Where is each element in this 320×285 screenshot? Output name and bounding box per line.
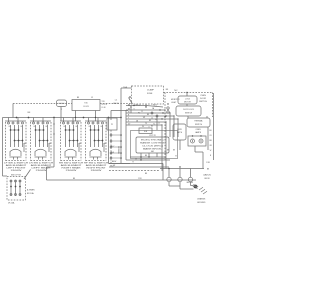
svg-text:A TIMER: A TIMER xyxy=(27,189,35,192)
svg-text:P3 P2 P1: P3 P2 P1 xyxy=(149,135,156,137)
fan junction xyxy=(162,112,163,113)
junction on bus xyxy=(95,117,96,118)
contact point xyxy=(39,140,41,142)
svg-text:AND ELEMENT: AND ELEMENT xyxy=(6,164,28,167)
fuse F1 terminal xyxy=(129,96,131,98)
svg-text:BK/W: BK/W xyxy=(112,161,117,163)
fan junction xyxy=(159,109,160,110)
wire Y fan run xyxy=(126,118,178,120)
surface switch S3 dashed left side xyxy=(60,122,62,161)
svg-text:RF SW & SWITCH: RF SW & SWITCH xyxy=(84,162,109,164)
svg-text:MONITOR: MONITOR xyxy=(171,99,180,101)
surface switch S2 dashed left side xyxy=(30,122,32,161)
pilot lamp lead xyxy=(78,143,80,152)
wire lower run 2 xyxy=(126,159,170,161)
element lead xyxy=(42,157,44,160)
contact point xyxy=(18,140,20,142)
surface element E4 dome xyxy=(90,149,101,156)
relay K1 DLB xyxy=(139,128,152,134)
contact point xyxy=(43,140,45,142)
wire BK fan run xyxy=(126,109,165,111)
wire ERC lead 2 xyxy=(148,153,150,157)
svg-text:CLOCK: CLOCK xyxy=(83,106,90,108)
wire right edge xyxy=(213,93,215,160)
svg-text:Y3: Y3 xyxy=(145,123,147,125)
fuse F1 terminal xyxy=(128,104,130,106)
wire terminal top link xyxy=(160,168,204,170)
svg-text:6B: 6B xyxy=(136,121,138,123)
fan terminal xyxy=(165,121,166,122)
surface switch S1 dashed right side xyxy=(25,122,27,161)
wire V fan run xyxy=(126,121,166,123)
svg-text:BK-12: BK-12 xyxy=(114,103,119,105)
lamp filament xyxy=(192,140,193,141)
svg-text:RR SW & SWITCH: RR SW & SWITCH xyxy=(59,162,84,164)
svg-text:R8: R8 xyxy=(149,120,151,122)
svg-text:N6: N6 xyxy=(151,126,153,128)
svg-text:T1: T1 xyxy=(153,124,155,126)
surface switch S1 dashed left side xyxy=(5,122,7,161)
wire into terminal block TB1 xyxy=(3,175,8,177)
wire lower run 3 left xyxy=(109,163,131,165)
svg-text:CHASSIS: CHASSIS xyxy=(197,198,206,201)
wire tick xyxy=(53,123,54,124)
surface element E2 dome xyxy=(35,149,46,156)
wire feed to connector xyxy=(111,110,128,112)
svg-text:AND ELEMENT: AND ELEMENT xyxy=(86,164,108,167)
surface switch S2 terminal 2 xyxy=(37,122,39,124)
svg-text:J2: J2 xyxy=(151,118,153,120)
contact point xyxy=(65,129,67,131)
fan terminal xyxy=(173,115,174,116)
wire stub to bus xyxy=(17,118,19,123)
connector P1 dashed column xyxy=(110,130,112,163)
oven lamp 1 xyxy=(191,139,195,143)
surface switch S1 terminal 4 xyxy=(22,122,24,124)
surface switch S1 contact pole 2 xyxy=(14,125,16,147)
svg-text:18A: 18A xyxy=(123,86,127,89)
junction on L1 bus xyxy=(16,117,18,119)
wire lower feed C xyxy=(109,170,160,172)
fan junction xyxy=(165,115,166,116)
power cord terminal xyxy=(178,177,182,181)
fan terminal xyxy=(161,124,162,125)
contact point xyxy=(73,129,75,131)
lamp terminal xyxy=(200,135,201,136)
svg-text:CLOCK: CLOCK xyxy=(102,104,108,106)
surface switch S3 terminal 3 xyxy=(72,122,74,124)
svg-text:NC: NC xyxy=(174,90,178,92)
oven lamp 2 xyxy=(199,139,203,143)
svg-text:AND ELEMENT: AND ELEMENT xyxy=(61,164,83,167)
svg-text:8A-2: 8A-2 xyxy=(151,150,154,153)
wire down right of S4 xyxy=(108,118,110,164)
fan junction xyxy=(161,118,162,119)
terminal block TB1 dashed enclosure xyxy=(7,177,26,201)
surface switch S4 dashed bottom xyxy=(86,160,107,162)
svg-text:BR: BR xyxy=(209,140,212,142)
TB1 bottom terminal xyxy=(15,194,17,196)
oven door switch S2 dashed right xyxy=(212,93,214,118)
surface switch S4 contact pole 4 xyxy=(102,125,104,147)
latch assembly housing xyxy=(173,124,186,140)
TB1 pole xyxy=(10,180,12,196)
svg-text:BP-10A: BP-10A xyxy=(27,192,34,195)
terminal link xyxy=(167,109,169,111)
svg-text:P2: P2 xyxy=(111,124,113,126)
svg-text:ANTI-TIP SW: ANTI-TIP SW xyxy=(11,174,21,177)
wire dashed run to clock box xyxy=(13,103,72,105)
junction xyxy=(140,159,141,160)
harness dashed left edge xyxy=(164,93,166,161)
wire lower feed B xyxy=(109,166,169,168)
surface switch S3 contact pole 4 xyxy=(77,125,79,147)
svg-text:W: W xyxy=(91,97,93,99)
svg-text:W-14: W-14 xyxy=(153,105,157,107)
surface switch S1 contact pole 1 xyxy=(10,125,12,147)
indicator lamp filament xyxy=(59,102,65,104)
TB1 contact xyxy=(15,186,17,188)
contact point xyxy=(98,129,100,131)
chassis ground hatch xyxy=(199,187,207,194)
surface switch S4 terminal 1 xyxy=(88,122,90,124)
terminal riser xyxy=(168,169,170,178)
wire stub to bus xyxy=(33,118,35,123)
fuse block F1 dashed enclosure xyxy=(132,86,164,104)
surface switch S2 dashed right side xyxy=(50,122,52,161)
junction xyxy=(164,116,165,117)
wire riser to latch 3 xyxy=(177,119,179,137)
wire fuse feed run xyxy=(126,105,146,107)
svg-text:RANGE CONTROL: RANGE CONTROL xyxy=(140,142,165,145)
TB1 contact xyxy=(10,186,12,188)
TB1 pole xyxy=(15,180,17,196)
surface switch S3 terminal 1 xyxy=(63,122,65,124)
surface switch S1 top rail xyxy=(5,120,26,122)
wire stub to bus xyxy=(63,118,65,123)
svg-text:LIGHT: LIGHT xyxy=(171,102,177,104)
lamp lead run xyxy=(195,151,203,153)
connector P1 pin xyxy=(120,140,122,142)
surface switch S4 top rail xyxy=(85,120,106,122)
connector P1 pin xyxy=(120,157,122,159)
surface switch S1 dashed bottom xyxy=(6,160,27,162)
wire stub to bus xyxy=(8,118,10,123)
contact point xyxy=(43,129,45,131)
contact bridge upper xyxy=(11,129,19,131)
TB1 bottom terminal xyxy=(10,194,12,196)
wire riser to terminal row xyxy=(165,122,167,169)
contact bridge upper xyxy=(91,129,99,131)
wire right of ERC xyxy=(179,140,181,150)
junction on L1 bus xyxy=(83,117,85,119)
element lead xyxy=(72,157,74,160)
terminal riser xyxy=(179,169,181,178)
svg-text:OVEN: OVEN xyxy=(195,129,201,131)
surface element E1 dome xyxy=(10,149,21,156)
connector P1 socket xyxy=(110,157,112,159)
element lead xyxy=(93,157,95,160)
wire fuse top link xyxy=(121,87,132,89)
lead to ground lug xyxy=(180,188,194,190)
contact point xyxy=(102,140,104,142)
surface switch S1 contact pole 3 xyxy=(18,125,20,147)
surface switch S3 contact pole 1 xyxy=(65,125,67,147)
indicator lamp DS2 xyxy=(57,100,67,107)
element lead xyxy=(13,157,15,160)
wire riser mid xyxy=(156,116,158,130)
surface element E3 dome xyxy=(65,149,76,156)
surface element E4 base xyxy=(90,156,102,158)
connector P1 socket xyxy=(110,146,112,148)
junction xyxy=(140,156,141,157)
wire L1 bus xyxy=(3,117,122,119)
surface switch S3 dashed bottom xyxy=(61,160,82,162)
wire GY fan run xyxy=(126,124,162,126)
svg-text:HARNESS: HARNESS xyxy=(118,146,121,154)
svg-text:OR: OR xyxy=(209,145,212,147)
svg-text:BK: BK xyxy=(166,89,169,91)
contact point xyxy=(47,140,49,142)
lead link xyxy=(169,185,180,187)
wire ERC lead 3 xyxy=(156,153,158,157)
surface switch S3 terminal 4 xyxy=(77,122,79,124)
lamp lead down xyxy=(194,146,196,152)
wire drop from clock 1 xyxy=(75,111,77,122)
surface switch S3 contact pole 3 xyxy=(73,125,75,147)
surface switch S4 contact pole 3 xyxy=(98,125,100,147)
contact point xyxy=(69,140,71,142)
TB1 contact xyxy=(19,186,21,188)
svg-text:GROUND: GROUND xyxy=(186,182,194,184)
contact point xyxy=(35,129,37,131)
element lead xyxy=(38,157,40,160)
contact point xyxy=(90,129,92,131)
svg-text:2100W: 2100W xyxy=(66,170,78,172)
surface switch S2 terminal 3 xyxy=(42,122,44,124)
wire drop from indicator xyxy=(60,107,62,122)
connector pin link xyxy=(112,134,120,136)
svg-text:LR SW & SWITCH: LR SW & SWITCH xyxy=(29,162,54,164)
junction xyxy=(148,156,149,157)
wire stub to bus xyxy=(72,118,74,123)
svg-text:DOOR: DOOR xyxy=(200,98,207,100)
connector pin link xyxy=(112,140,120,142)
svg-text:BK: BK xyxy=(173,150,175,152)
wire riser to latch 2 xyxy=(173,116,175,137)
surface switch S1 contact pole 4 xyxy=(22,125,24,147)
pilot lamp lead xyxy=(48,143,50,152)
svg-text:RIGHT FRONT: RIGHT FRONT xyxy=(87,168,107,170)
surface element E3 base xyxy=(65,156,77,158)
wire down between S2 and S3 xyxy=(53,118,55,168)
surface switch S3 contact pole 2 xyxy=(69,125,71,147)
splice ball xyxy=(156,115,158,117)
svg-text:2P-10A: 2P-10A xyxy=(8,202,15,205)
svg-text:BAKE BROIL: BAKE BROIL xyxy=(143,148,162,151)
lamp lead drop xyxy=(202,152,204,169)
terminal lead down 1 xyxy=(168,182,170,186)
svg-text:5A: 5A xyxy=(152,107,155,110)
surface switch S3 dashed right side xyxy=(80,122,82,161)
svg-text:1 BK: 1 BK xyxy=(206,162,211,164)
electronic range control U1 xyxy=(136,137,169,153)
surface switch S1 terminal 1 xyxy=(8,122,10,124)
fan terminal xyxy=(169,112,170,113)
surface switch S2 terminal 4 xyxy=(47,122,49,124)
svg-text:BK: BK xyxy=(77,97,80,99)
wire drop to bottom bus xyxy=(46,167,48,180)
connector pin link xyxy=(112,152,120,154)
wire jog xyxy=(47,166,55,168)
door lock motor M1 xyxy=(178,96,197,104)
surface switch S4 dashed right side xyxy=(105,122,107,161)
contact point xyxy=(14,129,16,131)
connector P1 socket xyxy=(110,152,112,154)
surface switch S2 contact pole 1 xyxy=(35,125,37,147)
svg-text:3100W: 3100W xyxy=(11,170,23,172)
power cord terminal xyxy=(188,177,192,181)
connector P1 pin xyxy=(120,146,122,148)
wire stub to bus xyxy=(88,118,90,123)
svg-text:MOTOR: MOTOR xyxy=(184,102,191,104)
svg-text:ELECTRONIC: ELECTRONIC xyxy=(141,140,165,142)
connector P1 socket xyxy=(110,134,112,136)
wire stub to bus xyxy=(42,118,44,123)
svg-text:15 AMP: 15 AMP xyxy=(147,89,155,92)
junction xyxy=(130,106,131,107)
surface switch S4 terminal 3 xyxy=(97,122,99,124)
svg-text:GY: GY xyxy=(209,135,212,137)
pilot lamp lead xyxy=(103,143,105,152)
wire bend down xyxy=(162,164,164,181)
ground lug cross xyxy=(193,186,198,188)
terminal riser xyxy=(190,169,192,178)
contact bridge lower xyxy=(70,140,78,142)
svg-text:12AWG-9C: 12AWG-9C xyxy=(203,174,212,177)
contact point xyxy=(39,129,41,131)
svg-text:CLOCK (ERC): CLOCK (ERC) xyxy=(142,146,164,148)
terminal lead down 3 xyxy=(190,182,192,186)
svg-text:3100W: 3100W xyxy=(91,170,103,172)
element lead xyxy=(97,157,99,160)
surface switch S2 terminal 1 xyxy=(33,122,35,124)
wire drop from dashed run xyxy=(12,104,14,118)
contact point xyxy=(22,140,24,142)
junction xyxy=(145,106,146,107)
splice ball xyxy=(151,112,153,114)
wire left edge drop xyxy=(2,118,4,177)
wire stub to bus xyxy=(97,118,99,123)
fan terminal xyxy=(177,118,178,119)
lead to ground lug 2 xyxy=(191,185,194,187)
svg-text:BK: BK xyxy=(73,178,76,180)
surface switch S3 top rail xyxy=(60,120,81,122)
wire lower run 1 xyxy=(130,156,166,158)
pilot lamp lead xyxy=(23,143,25,152)
junction on L1 bus xyxy=(53,117,55,119)
junction on L1 bus xyxy=(108,117,110,119)
connector P1 column xyxy=(120,118,122,164)
surface switch S4 terminal 4 xyxy=(102,122,104,124)
connector pin link xyxy=(112,146,120,148)
junction on L1 bus xyxy=(28,117,30,119)
svg-text:L1: L1 xyxy=(115,100,118,102)
svg-text:W: W xyxy=(210,150,212,152)
lamp terminal xyxy=(192,135,193,136)
time-of-day clock A1 xyxy=(72,100,100,111)
terminal lead down 2 xyxy=(179,182,181,189)
wire left riser xyxy=(125,110,127,160)
junction xyxy=(133,105,134,106)
wire drop from clock 2 xyxy=(95,111,97,122)
svg-text:BU: BU xyxy=(209,130,212,132)
surface switch S4 contact pole 1 xyxy=(90,125,92,147)
surface element E1 base xyxy=(10,156,22,158)
wire door switch to lock motor xyxy=(186,93,188,97)
svg-text:DOOR LOCK: DOOR LOCK xyxy=(183,109,195,111)
plug P2 housing xyxy=(107,118,117,130)
svg-text:2100W: 2100W xyxy=(36,170,48,172)
svg-text:FUSE: FUSE xyxy=(147,93,153,95)
TB1 bottom terminal xyxy=(19,194,21,196)
surface switch S3 terminal 2 xyxy=(67,122,69,124)
svg-text:BK-12: BK-12 xyxy=(136,105,141,107)
oven thermostat TH1 xyxy=(187,118,210,127)
ground lug xyxy=(194,185,198,189)
power cord terminal xyxy=(167,177,171,181)
svg-text:LOCK: LOCK xyxy=(185,99,191,101)
wire lock motor to switch xyxy=(186,104,188,106)
surface switch S2 contact pole 4 xyxy=(47,125,49,147)
wire N bottom bus xyxy=(47,179,197,181)
contact bridge lower xyxy=(95,140,103,142)
svg-text:GROUND: GROUND xyxy=(197,202,206,204)
wire stub from fuse block xyxy=(145,104,147,107)
svg-text:W2: W2 xyxy=(143,117,145,119)
svg-text:BK: BK xyxy=(28,112,31,114)
svg-text:BK: BK xyxy=(207,169,210,171)
surface switch S2 contact pole 3 xyxy=(43,125,45,147)
svg-text:RIGHT REAR: RIGHT REAR xyxy=(62,167,82,170)
terminal ring 2 xyxy=(167,111,169,113)
connector pin link xyxy=(112,157,120,159)
contact bridge upper xyxy=(36,129,44,131)
contact point xyxy=(14,140,16,142)
contact bridge upper xyxy=(66,129,74,131)
svg-text:BK/OR: BK/OR xyxy=(205,178,211,180)
contact point xyxy=(77,140,79,142)
contact point xyxy=(73,140,75,142)
svg-text:W: W xyxy=(175,156,177,158)
element lead xyxy=(68,157,70,160)
terminal ring xyxy=(167,107,169,109)
svg-text:POK: POK xyxy=(138,178,142,180)
svg-text:L1-30: L1-30 xyxy=(102,107,106,109)
ground lug cross 2 xyxy=(194,184,198,189)
junction xyxy=(179,166,180,167)
wire W fan run xyxy=(126,112,170,114)
junction xyxy=(168,168,169,169)
svg-text:TOD: TOD xyxy=(102,101,106,103)
surface switch S2 top rail xyxy=(30,120,51,122)
callout leader line xyxy=(24,170,31,180)
fuse F1 blade xyxy=(129,98,133,105)
surface switch S4 contact pole 2 xyxy=(94,125,96,147)
wire riser long xyxy=(161,125,163,171)
wire R fan run xyxy=(126,115,174,117)
svg-text:SWITCH: SWITCH xyxy=(185,112,193,114)
